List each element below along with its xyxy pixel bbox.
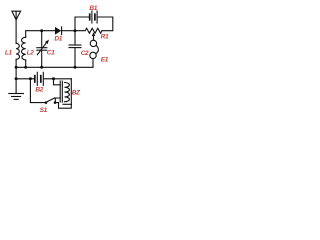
wire diode to junction [61, 30, 75, 32]
wire S1 left lead [30, 79, 44, 103]
node C1 top junction [40, 29, 43, 32]
wire battery B1 right lead [98, 17, 113, 31]
resistor R1 (rheostat) [75, 28, 102, 40]
svg-text:E1: E1 [101, 56, 109, 63]
svg-text:C2: C2 [81, 50, 89, 57]
switch S1 [45, 98, 57, 104]
wire C1 bottom lead [41, 50, 43, 67]
wire to B2 [16, 78, 34, 80]
svg-text:B2: B2 [35, 87, 43, 94]
inductor L1 [16, 43, 19, 59]
wire bottom bus [16, 66, 93, 68]
wire B2 to buzzer top [44, 78, 71, 80]
wire battery B1 left lead [75, 17, 89, 31]
node C2 bottom junction [74, 66, 77, 69]
node C2/B1 top junction [74, 29, 77, 32]
inductor L2 [22, 37, 26, 60]
battery B1 [90, 11, 97, 23]
svg-text:S1: S1 [40, 107, 48, 114]
wire buzzer right side [55, 79, 71, 108]
wire L2 bottom lead [25, 60, 27, 67]
node B2 branch junction [15, 77, 18, 80]
battery B2 [35, 72, 44, 85]
buzzer BZ [54, 79, 72, 105]
svg-text:L1: L1 [5, 50, 13, 57]
node S1 branch junction [29, 77, 32, 80]
wire L1 bottom lead [15, 59, 17, 67]
node L2 bottom junction [24, 66, 27, 69]
capacitor C1 (variable) [37, 40, 49, 55]
svg-text:D1: D1 [54, 36, 62, 43]
ground [9, 94, 24, 100]
diode D1 [55, 27, 62, 35]
wire ground lead [15, 67, 17, 93]
node buzzer coil tap [52, 77, 55, 80]
svg-text:R1: R1 [101, 34, 109, 41]
capacitor C2 [69, 31, 81, 68]
svg-text:L2: L2 [27, 50, 35, 57]
node L1/ground junction [15, 66, 18, 69]
earphone E1 [90, 40, 99, 67]
node C1 bottom junction [40, 66, 43, 69]
svg-text:B1: B1 [89, 5, 97, 12]
wire C1 top lead [41, 31, 43, 48]
svg-text:BZ: BZ [72, 90, 81, 97]
antenna [12, 11, 21, 43]
svg-text:C1: C1 [47, 50, 55, 57]
wire L2 top lead to top bus [26, 31, 55, 38]
